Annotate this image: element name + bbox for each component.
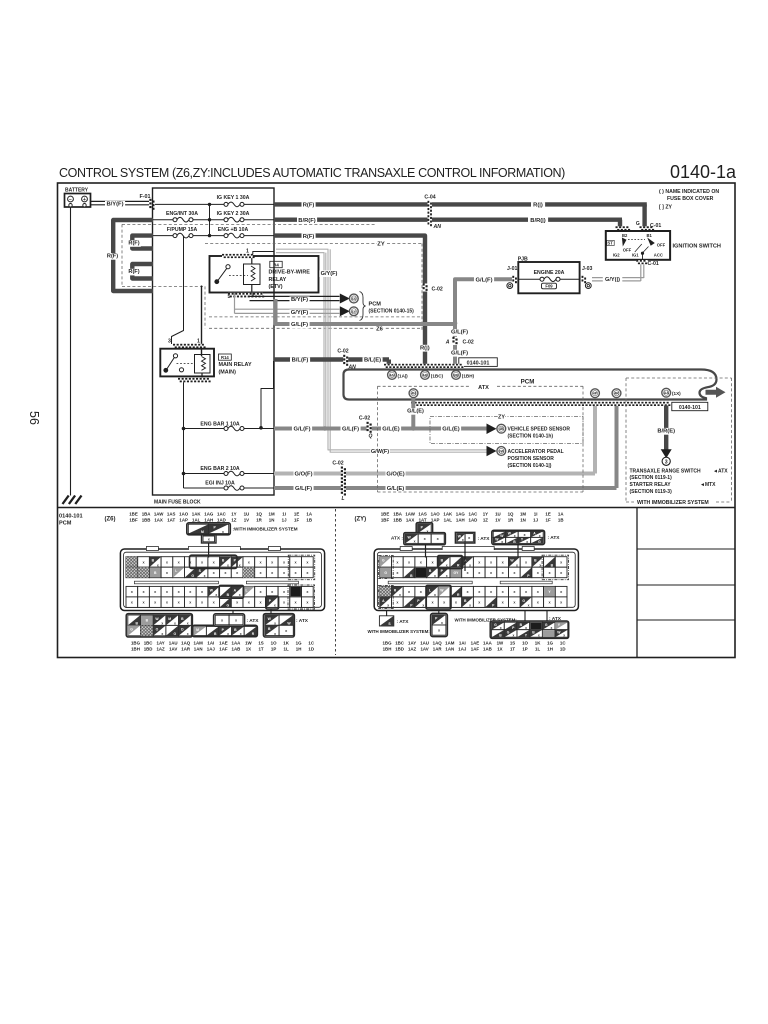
svg-text:5: 5 xyxy=(228,294,231,300)
Z6 top immobilizer block xyxy=(187,523,231,535)
svg-text:1AY: 1AY xyxy=(157,641,165,646)
PCM pin (1X) xyxy=(662,388,671,397)
label B/R(F) xyxy=(297,217,317,224)
label R(F) loop A xyxy=(127,240,141,247)
svg-text:(MAIN): (MAIN) xyxy=(219,369,237,375)
svg-text:Q: Q xyxy=(369,434,373,440)
svg-text:x: x xyxy=(469,604,471,608)
svg-text:1C: 1C xyxy=(560,641,566,646)
svg-text:1R: 1R xyxy=(508,517,514,522)
svg-text:1L: 1L xyxy=(535,646,540,651)
wire from F/PUMP to main relay pin 3 xyxy=(172,236,184,344)
relay R4 bottom connector hatch xyxy=(228,293,263,298)
svg-text:G: G xyxy=(130,627,133,631)
svg-text:G/Y(F): G/Y(F) xyxy=(291,310,308,316)
svg-text:R(|): R(|) xyxy=(533,203,543,209)
svg-text:L: L xyxy=(429,588,431,592)
svg-text:1I: 1I xyxy=(282,512,286,517)
svg-text:1H: 1H xyxy=(547,646,553,651)
svg-text:ATX: ATX xyxy=(478,385,489,391)
svg-text:1A: 1A xyxy=(558,512,564,517)
svg-text:IG KEY 1 30A: IG KEY 1 30A xyxy=(217,195,250,201)
svg-text:(1BC): (1BC) xyxy=(431,373,444,378)
svg-text:1B: 1B xyxy=(306,517,312,522)
svg-text:C-02: C-02 xyxy=(337,349,348,355)
svg-text:: ATX: : ATX xyxy=(478,536,491,542)
svg-text:F-01: F-01 xyxy=(139,194,150,200)
main relay top connector hatch xyxy=(173,344,206,348)
label G/L(F) EGI xyxy=(294,486,314,493)
svg-text:1V: 1V xyxy=(495,517,500,522)
svg-text:B2: B2 xyxy=(622,233,628,238)
svg-text:0140-1a: 0140-1a xyxy=(670,162,737,182)
svg-text:1S: 1S xyxy=(510,641,515,646)
svg-text:1Y: 1Y xyxy=(231,512,236,517)
PCM pin AN (1A|) xyxy=(388,371,397,380)
wire to main relay coil xyxy=(201,286,203,357)
outer frame xyxy=(58,183,736,658)
svg-text:1Y: 1Y xyxy=(483,512,488,517)
label G/Y(|) xyxy=(603,277,623,284)
svg-text:1BB: 1BB xyxy=(142,517,151,522)
svg-text:6X: 6X xyxy=(352,297,357,301)
svg-text:R(|): R(|) xyxy=(420,345,430,351)
ignition switch box xyxy=(606,231,670,260)
PJB box xyxy=(518,262,579,293)
ZY col1 dash-dot boxes xyxy=(379,556,394,579)
svg-text:1J: 1J xyxy=(533,517,538,522)
ZY connector key slots xyxy=(388,581,472,584)
svg-text:1AM: 1AM xyxy=(194,641,204,646)
svg-text:x: x xyxy=(387,604,389,608)
svg-text:B/R(|): B/R(|) xyxy=(530,218,546,224)
svg-text:x: x xyxy=(512,634,514,638)
svg-text:PCM: PCM xyxy=(59,520,72,526)
svg-text:1BD: 1BD xyxy=(395,646,404,651)
svg-text:1R: 1R xyxy=(256,517,262,522)
svg-text:x: x xyxy=(538,634,540,638)
Z6 row4 highlight box xyxy=(266,596,279,609)
svg-text:1W: 1W xyxy=(245,641,252,646)
Z6 connector grid row 2 xyxy=(126,567,138,578)
svg-text:1AP: 1AP xyxy=(431,517,440,522)
ZY rows3-4 highlight box xyxy=(426,585,451,609)
wire G/O(E) vertical to PCM pin xyxy=(593,405,597,474)
main relay R14 box xyxy=(160,349,214,377)
svg-text:B1: B1 xyxy=(647,233,653,238)
svg-text:1AO: 1AO xyxy=(179,512,189,517)
svg-text:1BG: 1BG xyxy=(131,641,141,646)
dashed separator between Z6 and ZY xyxy=(335,509,337,655)
svg-text:0140-101: 0140-101 xyxy=(467,360,490,366)
ground symbol xyxy=(63,496,69,505)
svg-text:M: M xyxy=(201,530,204,534)
svg-text:1BE: 1BE xyxy=(129,512,138,517)
wire G/L to PCM lower xyxy=(274,486,617,490)
ZY row1 highlight box xyxy=(438,556,463,569)
svg-text:(1A|): (1A|) xyxy=(398,373,409,378)
svg-text:G/L(F): G/L(F) xyxy=(451,350,468,356)
svg-text:G: G xyxy=(226,604,229,608)
svg-text:x: x xyxy=(414,540,416,544)
svg-text:ENG BAR 2 10A: ENG BAR 2 10A xyxy=(200,466,239,472)
ZY bottom left ATX cell xyxy=(379,616,393,626)
svg-text:R4: R4 xyxy=(273,262,279,267)
svg-text:1AU: 1AU xyxy=(169,641,178,646)
label R(F) loop B xyxy=(127,269,141,276)
svg-text:G: G xyxy=(507,630,510,634)
svg-text:ATX :: ATX : xyxy=(391,536,404,542)
svg-text:1AJ: 1AJ xyxy=(458,646,467,651)
label G/O(E) xyxy=(386,471,406,478)
label B/Y(F) xyxy=(105,201,125,208)
svg-text:G/L(F): G/L(F) xyxy=(291,322,308,328)
svg-text:BB: BB xyxy=(453,373,459,377)
ZY PCM connector outline xyxy=(374,549,578,611)
ZY bottom middle block xyxy=(431,613,448,636)
svg-text:IG2: IG2 xyxy=(613,252,620,257)
svg-text:x: x xyxy=(274,604,276,608)
svg-text:x: x xyxy=(434,574,436,578)
svg-text:1AM: 1AM xyxy=(445,641,455,646)
wire G/O to PCM xyxy=(274,472,595,476)
svg-text:x: x xyxy=(204,574,206,578)
svg-text:1AW: 1AW xyxy=(405,512,415,517)
Z6 bottom middle connecting line xyxy=(232,611,234,614)
svg-text:1: 1 xyxy=(197,339,200,345)
svg-text:L: L xyxy=(245,588,247,592)
svg-text:(ZY): (ZY) xyxy=(355,517,367,523)
svg-text:G/Y(|): G/Y(|) xyxy=(605,277,620,283)
label G/L(E) 2 xyxy=(441,426,461,433)
wire B/R(E) to transaxle range switch xyxy=(664,406,668,450)
arrow to accelerator pedal position sensor xyxy=(487,446,497,457)
svg-text:1BD: 1BD xyxy=(144,646,153,651)
svg-text:(1BH): (1BH) xyxy=(462,373,475,378)
svg-text:1AV: 1AV xyxy=(169,646,177,651)
svg-text:POSITION SENSOR: POSITION SENSOR xyxy=(508,456,555,462)
arrow down and circled 3 xyxy=(661,449,672,458)
svg-text:OFF: OFF xyxy=(623,248,632,253)
arrow and pin G/Y to PCM xyxy=(340,306,350,316)
svg-text:[ ] ZY: [ ] ZY xyxy=(659,205,673,211)
ZY top middle ATX cell xyxy=(455,532,474,543)
svg-text:C-02: C-02 xyxy=(332,460,343,466)
svg-text:G/L(F): G/L(F) xyxy=(451,330,468,336)
svg-text:G/O(F): G/O(F) xyxy=(294,472,312,478)
PCM bottom connector hatch strip xyxy=(411,402,668,406)
svg-text:1AE: 1AE xyxy=(471,641,480,646)
svg-text:4N: 4N xyxy=(411,392,416,396)
brace to PCM xyxy=(360,292,366,321)
svg-text:G: G xyxy=(538,540,541,544)
ZY connector grid row 3 xyxy=(380,586,392,597)
svg-text:AA: AA xyxy=(664,391,670,395)
svg-text:C-01: C-01 xyxy=(650,223,661,229)
svg-text:1E: 1E xyxy=(294,512,299,517)
relay R4 switch xyxy=(226,265,230,269)
svg-text:0140-101: 0140-101 xyxy=(679,405,701,411)
svg-text:0140-101: 0140-101 xyxy=(59,514,83,520)
svg-text:MAIN RELAY: MAIN RELAY xyxy=(219,362,252,368)
Z6 top block connecting line xyxy=(208,543,210,558)
svg-text:: ATX: : ATX xyxy=(247,618,260,624)
svg-text:56: 56 xyxy=(27,411,41,425)
svg-text:1Z: 1Z xyxy=(231,517,236,522)
label R to PCM xyxy=(418,345,432,352)
svg-text:AN: AN xyxy=(389,373,395,377)
svg-text:STARTER RELAY: STARTER RELAY xyxy=(630,482,672,488)
svg-text:G: G xyxy=(636,221,640,227)
svg-text:1L: 1L xyxy=(284,646,289,651)
svg-text:1X: 1X xyxy=(497,646,502,651)
Z6 row3 highlight box xyxy=(219,585,243,598)
junction with G/Y vertical xyxy=(323,426,328,431)
label G/L(F) lower xyxy=(450,350,470,357)
svg-text:1AQ: 1AQ xyxy=(181,641,191,646)
Z6 bottom left block xyxy=(126,614,192,637)
wire G/L(E) pin to sensor wire xyxy=(411,398,415,429)
svg-text:1AC: 1AC xyxy=(469,512,479,517)
table row lines xyxy=(637,548,735,550)
svg-text:RELAY: RELAY xyxy=(269,277,287,283)
svg-text:F09: F09 xyxy=(545,284,553,289)
wire R(F) loop B xyxy=(132,264,153,279)
junction G/L xyxy=(453,321,458,326)
svg-text:G/L(F): G/L(F) xyxy=(295,486,312,492)
svg-text:−: − xyxy=(69,197,72,203)
svg-text:TRANSAXLE RANGE SWITCH: TRANSAXLE RANGE SWITCH xyxy=(630,468,702,474)
wire battery negative to ground xyxy=(70,207,72,496)
svg-text:1AB: 1AB xyxy=(232,646,241,651)
svg-text:ENG/INT 30A: ENG/INT 30A xyxy=(166,211,198,217)
label R4 xyxy=(270,261,282,267)
svg-text:1O: 1O xyxy=(271,641,277,646)
label G/O(F) xyxy=(294,471,314,478)
svg-text:G/L(F): G/L(F) xyxy=(342,427,359,433)
svg-text:1BC: 1BC xyxy=(395,641,405,646)
svg-text:(SECTION 0140-15): (SECTION 0140-15) xyxy=(369,308,415,314)
svg-text:1AS: 1AS xyxy=(418,512,427,517)
svg-text:1T: 1T xyxy=(258,646,263,651)
connector C-02 L xyxy=(341,467,346,495)
svg-text:G/L(E): G/L(E) xyxy=(442,427,459,433)
svg-text:1AD: 1AD xyxy=(217,517,226,522)
svg-text:: ATX: : ATX xyxy=(397,619,410,625)
svg-text:M: M xyxy=(168,617,171,621)
svg-text:x: x xyxy=(446,574,448,578)
svg-text:(SECTION 0119-3): (SECTION 0119-3) xyxy=(630,489,673,495)
svg-text:1AN: 1AN xyxy=(445,646,454,651)
Z6 bottom right ATX block xyxy=(263,614,294,637)
svg-text:1A: 1A xyxy=(306,512,312,517)
Z6 connector grid row 3 xyxy=(126,586,138,597)
svg-text:(1X): (1X) xyxy=(672,391,681,396)
svg-text:1BA: 1BA xyxy=(393,512,403,517)
svg-text:1Q: 1Q xyxy=(508,512,514,517)
svg-text:F/PUMP 15A: F/PUMP 15A xyxy=(167,227,198,233)
svg-text:1AA: 1AA xyxy=(232,641,242,646)
svg-text:1K: 1K xyxy=(535,641,541,646)
wire R(F) row3 to C-02 branch xyxy=(274,236,425,368)
svg-text:ZY: ZY xyxy=(377,241,385,247)
svg-text:1V: 1V xyxy=(244,517,249,522)
label G/L(F) xyxy=(292,426,312,433)
svg-text:1AL: 1AL xyxy=(444,517,453,522)
svg-text:◄ATX: ◄ATX xyxy=(713,468,728,474)
label 0140-101 ref box 2 xyxy=(672,402,708,410)
wire B/L(F) to PCM pin AN xyxy=(274,357,389,361)
svg-text:J-01: J-01 xyxy=(507,266,517,272)
label G/L(F) right of junction xyxy=(341,426,361,433)
ZY connector grid row 2 xyxy=(380,567,392,578)
svg-text:( ) NAME INDICATED ON: ( ) NAME INDICATED ON xyxy=(659,189,719,195)
label B/L(E) xyxy=(363,357,383,364)
ZY bottom right connecting lines xyxy=(524,611,526,622)
svg-text:GY: GY xyxy=(453,571,459,575)
svg-text:1AT: 1AT xyxy=(167,517,175,522)
svg-text:+: + xyxy=(83,197,86,203)
svg-text:x: x xyxy=(563,634,565,638)
connector C-01 bottom xyxy=(636,260,648,264)
svg-text:4P: 4P xyxy=(593,392,598,396)
svg-text:1AR: 1AR xyxy=(433,646,443,651)
svg-text:1: 1 xyxy=(246,248,249,254)
svg-text:B/Y(F): B/Y(F) xyxy=(291,297,308,303)
Z6 rows3-4 right dash-dot box xyxy=(288,585,315,609)
svg-text:MAIN FUSE BLOCK: MAIN FUSE BLOCK xyxy=(154,500,201,506)
svg-text:x: x xyxy=(187,632,189,636)
svg-text:1AA: 1AA xyxy=(483,641,493,646)
svg-text:1C: 1C xyxy=(308,641,314,646)
svg-text:1D: 1D xyxy=(560,646,566,651)
svg-text:1AT: 1AT xyxy=(419,517,427,522)
svg-text:R(F): R(F) xyxy=(303,203,315,209)
svg-text:1AI: 1AI xyxy=(207,641,214,646)
svg-text:A: A xyxy=(445,339,450,345)
svg-text:ACC: ACC xyxy=(654,252,663,257)
svg-text:ZY: ZY xyxy=(498,415,505,421)
svg-text:O: O xyxy=(156,627,159,631)
svg-text:1BF: 1BF xyxy=(129,517,138,522)
svg-text:R(F): R(F) xyxy=(128,241,139,247)
svg-text:1AF: 1AF xyxy=(219,646,228,651)
label Z6 on dashed line xyxy=(376,326,384,333)
label G/L(E) under pin xyxy=(406,408,426,415)
svg-text:B/L(F): B/L(F) xyxy=(292,358,309,364)
label R(F) xyxy=(302,202,316,209)
Z6 PCM connector outline xyxy=(120,549,324,611)
label R14 xyxy=(219,354,232,360)
label B/R(E) xyxy=(656,428,676,435)
ZY top middle connecting line xyxy=(464,543,466,571)
svg-text:1AV: 1AV xyxy=(420,646,428,651)
svg-text:1S: 1S xyxy=(258,641,263,646)
dashed immobilizer region xyxy=(626,377,732,379)
svg-text:◄MTX: ◄MTX xyxy=(700,482,716,488)
svg-text:1M: 1M xyxy=(520,512,526,517)
svg-text:1U: 1U xyxy=(244,512,250,517)
svg-text:R14: R14 xyxy=(221,355,229,360)
svg-text:G/L(E): G/L(E) xyxy=(407,409,424,415)
label G/Y(F) vertical pair xyxy=(319,270,339,277)
wire main relay to B/L and ENG BAR fuses xyxy=(261,361,274,428)
svg-text:1I: 1I xyxy=(534,512,538,517)
svg-text:1AI: 1AI xyxy=(459,641,466,646)
svg-text:1F: 1F xyxy=(294,517,299,522)
svg-text:C-02: C-02 xyxy=(432,287,443,293)
svg-text:1AE: 1AE xyxy=(219,641,228,646)
svg-text:PJB: PJB xyxy=(518,256,528,262)
svg-text:1BG: 1BG xyxy=(382,641,392,646)
svg-text:1P: 1P xyxy=(522,646,527,651)
wire R(F) outer loop xyxy=(113,220,153,291)
label 0140-101 ref box xyxy=(459,358,498,367)
Z6 bottom right connecting line xyxy=(270,610,272,614)
svg-text:G: G xyxy=(191,574,194,578)
svg-text:OFF: OFF xyxy=(657,243,666,248)
PCM pin (1BC) xyxy=(421,371,430,380)
svg-text:1AR: 1AR xyxy=(181,646,191,651)
svg-text:1U: 1U xyxy=(495,512,501,517)
svg-text:1AG: 1AG xyxy=(456,512,466,517)
svg-text:x: x xyxy=(222,530,224,534)
svg-text:1BF: 1BF xyxy=(381,517,390,522)
svg-text:4B: 4B xyxy=(499,427,504,431)
svg-text:1AF: 1AF xyxy=(471,646,480,651)
svg-text:1T: 1T xyxy=(510,646,515,651)
PCM pin G/L xyxy=(612,389,621,398)
label B/L(F) xyxy=(290,357,310,364)
svg-text:ENG BAR 1 10A: ENG BAR 1 10A xyxy=(200,421,239,427)
svg-text:1Z: 1Z xyxy=(483,517,488,522)
PCM pin (1BH) xyxy=(452,371,461,380)
svg-text:1J: 1J xyxy=(282,517,287,522)
svg-text:DRIVE-BY-WIRE: DRIVE-BY-WIRE xyxy=(269,270,311,276)
svg-text:C-02: C-02 xyxy=(463,339,474,345)
svg-text:AB: AB xyxy=(422,373,428,377)
connector C-02 Q xyxy=(367,422,372,433)
svg-text:M: M xyxy=(196,628,199,632)
svg-text:1N: 1N xyxy=(520,517,526,522)
ZY connector grid row 4 xyxy=(380,597,392,608)
svg-text:1N: 1N xyxy=(269,517,275,522)
svg-text:O: O xyxy=(173,632,176,636)
svg-text:WITH IMMOBILIZER SYSTEM:: WITH IMMOBILIZER SYSTEM: xyxy=(368,629,431,634)
arrow and pin B/Y to PCM xyxy=(340,294,350,304)
svg-text:L: L xyxy=(342,496,345,502)
svg-text:x: x xyxy=(274,632,276,636)
svg-text:1G: 1G xyxy=(296,641,302,646)
svg-text:1X: 1X xyxy=(246,646,251,651)
svg-text:1AW: 1AW xyxy=(154,512,164,517)
svg-text:1AO: 1AO xyxy=(431,512,441,517)
wire ENG+B to relay R4 pin 1 xyxy=(253,252,274,255)
svg-text:: ATX: : ATX xyxy=(549,616,562,622)
svg-text:x: x xyxy=(526,540,528,544)
svg-text:WITH IMMOBILIZER SYSTEM: WITH IMMOBILIZER SYSTEM xyxy=(637,500,709,506)
wire relay output bus to fuses xyxy=(183,382,185,488)
svg-text:: ATX: : ATX xyxy=(548,535,561,541)
svg-text:G/L(F): G/L(F) xyxy=(293,427,310,433)
label ZY on dashed line xyxy=(377,241,385,248)
continuation arrow xyxy=(706,387,726,398)
main fuse block box xyxy=(153,188,275,495)
svg-text:1AH: 1AH xyxy=(204,517,213,522)
connector C-02 on R wire xyxy=(423,284,428,292)
svg-text:1K: 1K xyxy=(283,641,289,646)
junction G/L(E) xyxy=(411,426,416,431)
